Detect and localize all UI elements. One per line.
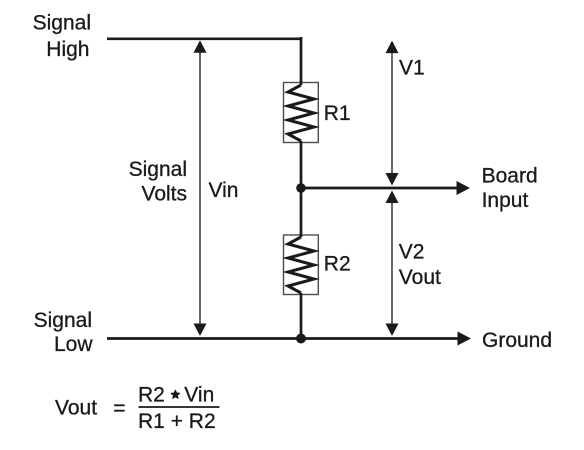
svg-text:R2: R2 (138, 384, 165, 407)
svg-text:Low: Low (54, 333, 93, 356)
svg-text:Signal: Signal (129, 158, 187, 181)
svg-text:Vin: Vin (209, 179, 239, 202)
svg-text:Vout: Vout (55, 396, 97, 419)
svg-text:V2: V2 (399, 241, 425, 264)
svg-text:High: High (46, 38, 89, 61)
svg-text:Vin: Vin (184, 384, 214, 407)
svg-text:Input: Input (482, 189, 529, 212)
svg-text:R2: R2 (324, 253, 351, 276)
svg-text:R1 + R2: R1 + R2 (138, 410, 216, 433)
svg-text:R1: R1 (324, 102, 351, 125)
svg-text:Board: Board (482, 164, 538, 187)
svg-text:Signal: Signal (33, 12, 91, 35)
svg-text:Ground: Ground (482, 329, 552, 352)
svg-text:Volts: Volts (141, 183, 187, 206)
svg-text:Vout: Vout (399, 266, 441, 289)
svg-text:=: = (113, 397, 125, 420)
svg-text:V1: V1 (399, 57, 425, 80)
svg-text:Signal: Signal (34, 309, 92, 332)
